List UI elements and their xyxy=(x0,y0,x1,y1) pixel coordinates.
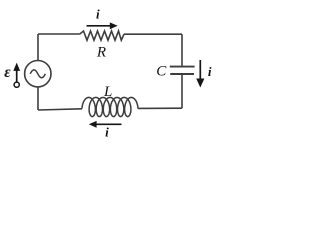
svg-text:i: i xyxy=(96,7,100,22)
svg-text:L: L xyxy=(103,84,112,100)
svg-text:C: C xyxy=(156,64,167,80)
svg-text:ε: ε xyxy=(4,64,11,81)
svg-text:R: R xyxy=(96,45,106,61)
svg-text:i: i xyxy=(208,64,212,79)
svg-text:i: i xyxy=(105,125,109,140)
